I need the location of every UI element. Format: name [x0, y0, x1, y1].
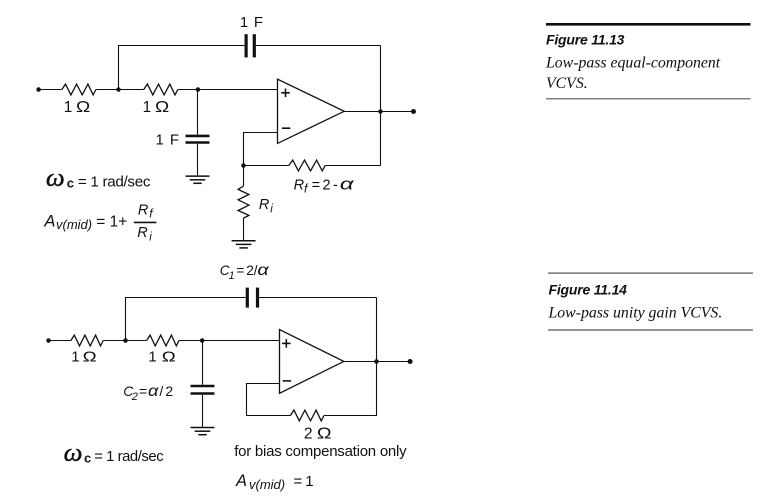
wire cap to output vertical: [256, 45, 381, 47]
input terminal node (bottom circuit): [46, 338, 51, 343]
op-amp U1: [278, 79, 345, 143]
svg-text:Rf=2-α: Rf=2-α: [294, 174, 356, 195]
svg-text:1Ω: 1Ω: [71, 349, 97, 366]
wire junction up to C1: [126, 298, 246, 341]
resistor R 1-ohm (first, bottom circuit): [71, 335, 103, 346]
svg-text:ω: ω: [46, 165, 65, 192]
svg-text:A: A: [235, 472, 247, 490]
svg-text:v(mid): v(mid): [56, 217, 92, 232]
wire input to R1: [39, 89, 62, 91]
wire node to op-amp +: [198, 89, 278, 91]
output node (bottom circuit): [374, 359, 379, 364]
svg-text:= 1 rad/sec: = 1 rad/sec: [78, 174, 151, 191]
svg-text:= 1+: = 1+: [96, 214, 127, 231]
wire output vertical (cap top to feedback bottom): [380, 46, 382, 166]
wire input to R1 (bottom): [49, 340, 71, 342]
input terminal node (top circuit): [36, 87, 41, 92]
wire R2 to +input node (bottom): [179, 340, 202, 342]
resistor Rf = 2 - alpha: [289, 160, 325, 171]
wire to output terminal (bottom): [377, 361, 411, 363]
wire op-amp minus input to left: [244, 133, 278, 166]
svg-text:Figure 11.13: Figure 11.13: [546, 32, 625, 48]
svg-text:c: c: [84, 450, 91, 465]
node at op-amp + input (bottom): [200, 338, 205, 343]
op-amp U2 plus input marking: [282, 339, 291, 348]
output terminal node (bottom circuit): [408, 359, 413, 364]
svg-text:Figure 11.14: Figure 11.14: [549, 281, 628, 297]
svg-text:1Ω: 1Ω: [64, 99, 90, 116]
svg-text:VCVS.: VCVS.: [546, 75, 588, 92]
resistor R 1-ohm (second, top circuit): [144, 84, 178, 95]
wire shunt cap to ground: [197, 144, 199, 176]
wire node down to C2: [202, 341, 204, 385]
svg-text:2Ω: 2Ω: [304, 426, 332, 443]
svg-text:for bias compensation only: for bias compensation only: [234, 443, 407, 460]
wire junction up to feedback cap: [119, 46, 245, 90]
node at op-amp + input: [196, 87, 201, 92]
wire C2 to ground: [202, 395, 204, 428]
caption rule light (below Figure 11.14 block): [548, 329, 753, 331]
resistor R 1-ohm (first, top circuit): [62, 84, 96, 95]
wire Rf to output vertical: [325, 165, 380, 167]
wire R2 to +input node: [178, 89, 198, 91]
svg-text:v(mid): v(mid): [249, 477, 285, 492]
junction node between resistors: [116, 87, 121, 92]
svg-text:= 1 rad/sec: = 1 rad/sec: [94, 449, 164, 465]
wire node down to shunt cap: [197, 90, 199, 135]
wire op-amp minus to feedback loop (bottom): [247, 384, 291, 416]
ground (Ri, top circuit): [232, 241, 256, 248]
resistor R 1-ohm (second, bottom circuit): [147, 335, 179, 346]
svg-text:Low-pass unity gain VCVS.: Low-pass unity gain VCVS.: [548, 305, 723, 322]
capacitor 1 F (shunt, top circuit): [186, 135, 210, 138]
svg-text:A: A: [43, 213, 55, 231]
wire R1 to junction (bottom): [103, 340, 125, 342]
svg-text:c: c: [67, 176, 74, 191]
caption rule light (above Figure 11.14): [548, 272, 753, 274]
output terminal node (top circuit): [411, 109, 416, 114]
capacitor C1 = 2/alpha: [246, 288, 249, 308]
wire op-amp output (bottom): [344, 361, 377, 363]
caption rule heavy (above Figure 11.13): [546, 23, 751, 26]
wire to output terminal: [381, 111, 414, 113]
op-amp U2 minus input marking: [283, 380, 291, 382]
capacitor 1 F (feedback, top): [245, 34, 248, 57]
resistor 2 ohm (bias compensation): [290, 410, 324, 421]
wire 2-ohm resistor to output vertical: [324, 362, 377, 416]
op-amp U1 plus input marking: [281, 89, 290, 98]
wire junction to Rf: [244, 165, 289, 167]
svg-text:1Ω: 1Ω: [143, 99, 170, 116]
caption rule light (below Figure 11.13 block): [546, 98, 751, 100]
svg-text:Low-pass equal-component: Low-pass equal-component: [545, 54, 721, 71]
wire junction to R2 (bottom): [126, 340, 147, 342]
op-amp U2: [280, 330, 344, 394]
ground (C2, bottom circuit): [191, 428, 215, 435]
ground (shunt cap, top circuit): [186, 176, 210, 183]
wire C1 to output vertical (bottom): [259, 297, 376, 299]
resistor Ri (vertical): [243, 166, 245, 187]
output node (top circuit): [378, 109, 383, 114]
wire node to op-amp + (bottom): [202, 340, 279, 342]
wire op-amp output: [344, 111, 380, 113]
junction node between resistors (bottom): [123, 338, 128, 343]
capacitor C2 = alpha/2: [191, 385, 215, 388]
svg-text:1Ω: 1Ω: [148, 349, 175, 366]
svg-text:ω: ω: [64, 440, 83, 467]
junction node at Ri / Rf: [241, 163, 246, 168]
wire junction to R2: [119, 89, 144, 91]
op-amp U1 minus input marking: [282, 127, 290, 129]
wire R1 to junction: [96, 89, 119, 91]
